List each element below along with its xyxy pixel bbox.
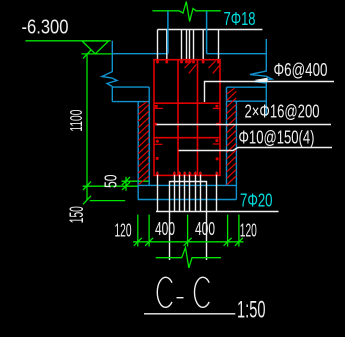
title C (second) (194, 277, 209, 307)
50-dim tick bottom (122, 182, 130, 190)
svg-text:50: 50 (100, 174, 120, 188)
svg-text:400: 400 (195, 219, 215, 239)
phi6 bar white corner (205, 82, 267, 103)
7phi20 leader line (156, 211, 279, 213)
blue ledge line left at y54 (112, 53, 168, 55)
svg-text:Φ6@400: Φ6@400 (274, 60, 328, 80)
left pit wall blue with break (102, 41, 117, 102)
svg-text:120: 120 (240, 221, 257, 241)
right band outer edge (235, 101, 237, 199)
tick at y186 (83, 182, 91, 191)
green break line top (153, 2, 221, 22)
7phi18 leader line (158, 29, 263, 31)
ext line y186 (83, 185, 139, 187)
right ledge (227, 87, 267, 101)
stirrup hooks under y137.7 (154, 139, 220, 144)
svg-text:120: 120 (115, 221, 132, 241)
svg-text:400: 400 (155, 219, 175, 239)
svg-text:-6.300: -6.300 (22, 16, 69, 39)
left band outer edge (137, 102, 139, 200)
marks y158 (156, 157, 159, 160)
blue ledge line right at y54 (207, 53, 267, 55)
svg-text:1:50: 1:50 (237, 297, 266, 324)
50-dim tick top (122, 177, 130, 185)
title C (first) (157, 277, 172, 307)
svg-text:7Φ20: 7Φ20 (240, 190, 273, 210)
right band inner edge (226, 87, 228, 185)
svg-text:7Φ18: 7Φ18 (224, 8, 256, 29)
left band inner edge (148, 87, 150, 185)
bottom dim ticks (134, 238, 243, 246)
phi6@400 arrow (255, 78, 268, 83)
waist bar marks y124 (155, 123, 158, 126)
dowel bars 7phi20 (158, 172, 217, 212)
red column outline (154, 60, 220, 176)
column stub below (U outline) (170, 182, 207, 261)
tick at top of dim line (83, 50, 91, 59)
bottom dim line (133, 241, 244, 243)
upper column edge blue right (206, 11, 208, 54)
50-dim vertical (125, 177, 127, 191)
column top hatch marks (185, 61, 220, 74)
2xphi16 leader (157, 124, 332, 126)
phi10 leader (179, 148, 333, 151)
50-dim ext y181 (122, 180, 150, 182)
svg-text:150: 150 (67, 206, 88, 223)
ext line y200 (90, 200, 126, 202)
upper column edge blue left (167, 11, 169, 54)
top rebar group 7phi18 (158, 30, 219, 62)
svg-text:1100: 1100 (66, 109, 86, 131)
dim line vertical left (86, 54, 88, 200)
cup floor line (138, 184, 236, 186)
footing bottom line (138, 199, 237, 201)
dowel top dots (156, 172, 219, 175)
svg-text:Φ10@150(4): Φ10@150(4) (239, 128, 315, 148)
right band hatch (227, 88, 237, 185)
top rebar end dots (156, 61, 220, 64)
elevation underbar (82, 53, 112, 55)
tick at y200 (83, 196, 91, 205)
svg-text:2×Φ16@200: 2×Φ16@200 (245, 102, 320, 122)
elevation triangle (82, 41, 109, 54)
stirrup hooks under y103 (155, 105, 220, 109)
level line (25, 40, 110, 42)
green break line bottom (156, 248, 221, 268)
right pit wall blue with break (250, 39, 272, 116)
title underline (144, 313, 235, 315)
phi6@400 underline (268, 81, 334, 83)
title dash (177, 297, 184, 299)
bottom dim ext lines (138, 215, 239, 247)
left band hatch (138, 102, 149, 185)
left ledge (112, 87, 149, 102)
